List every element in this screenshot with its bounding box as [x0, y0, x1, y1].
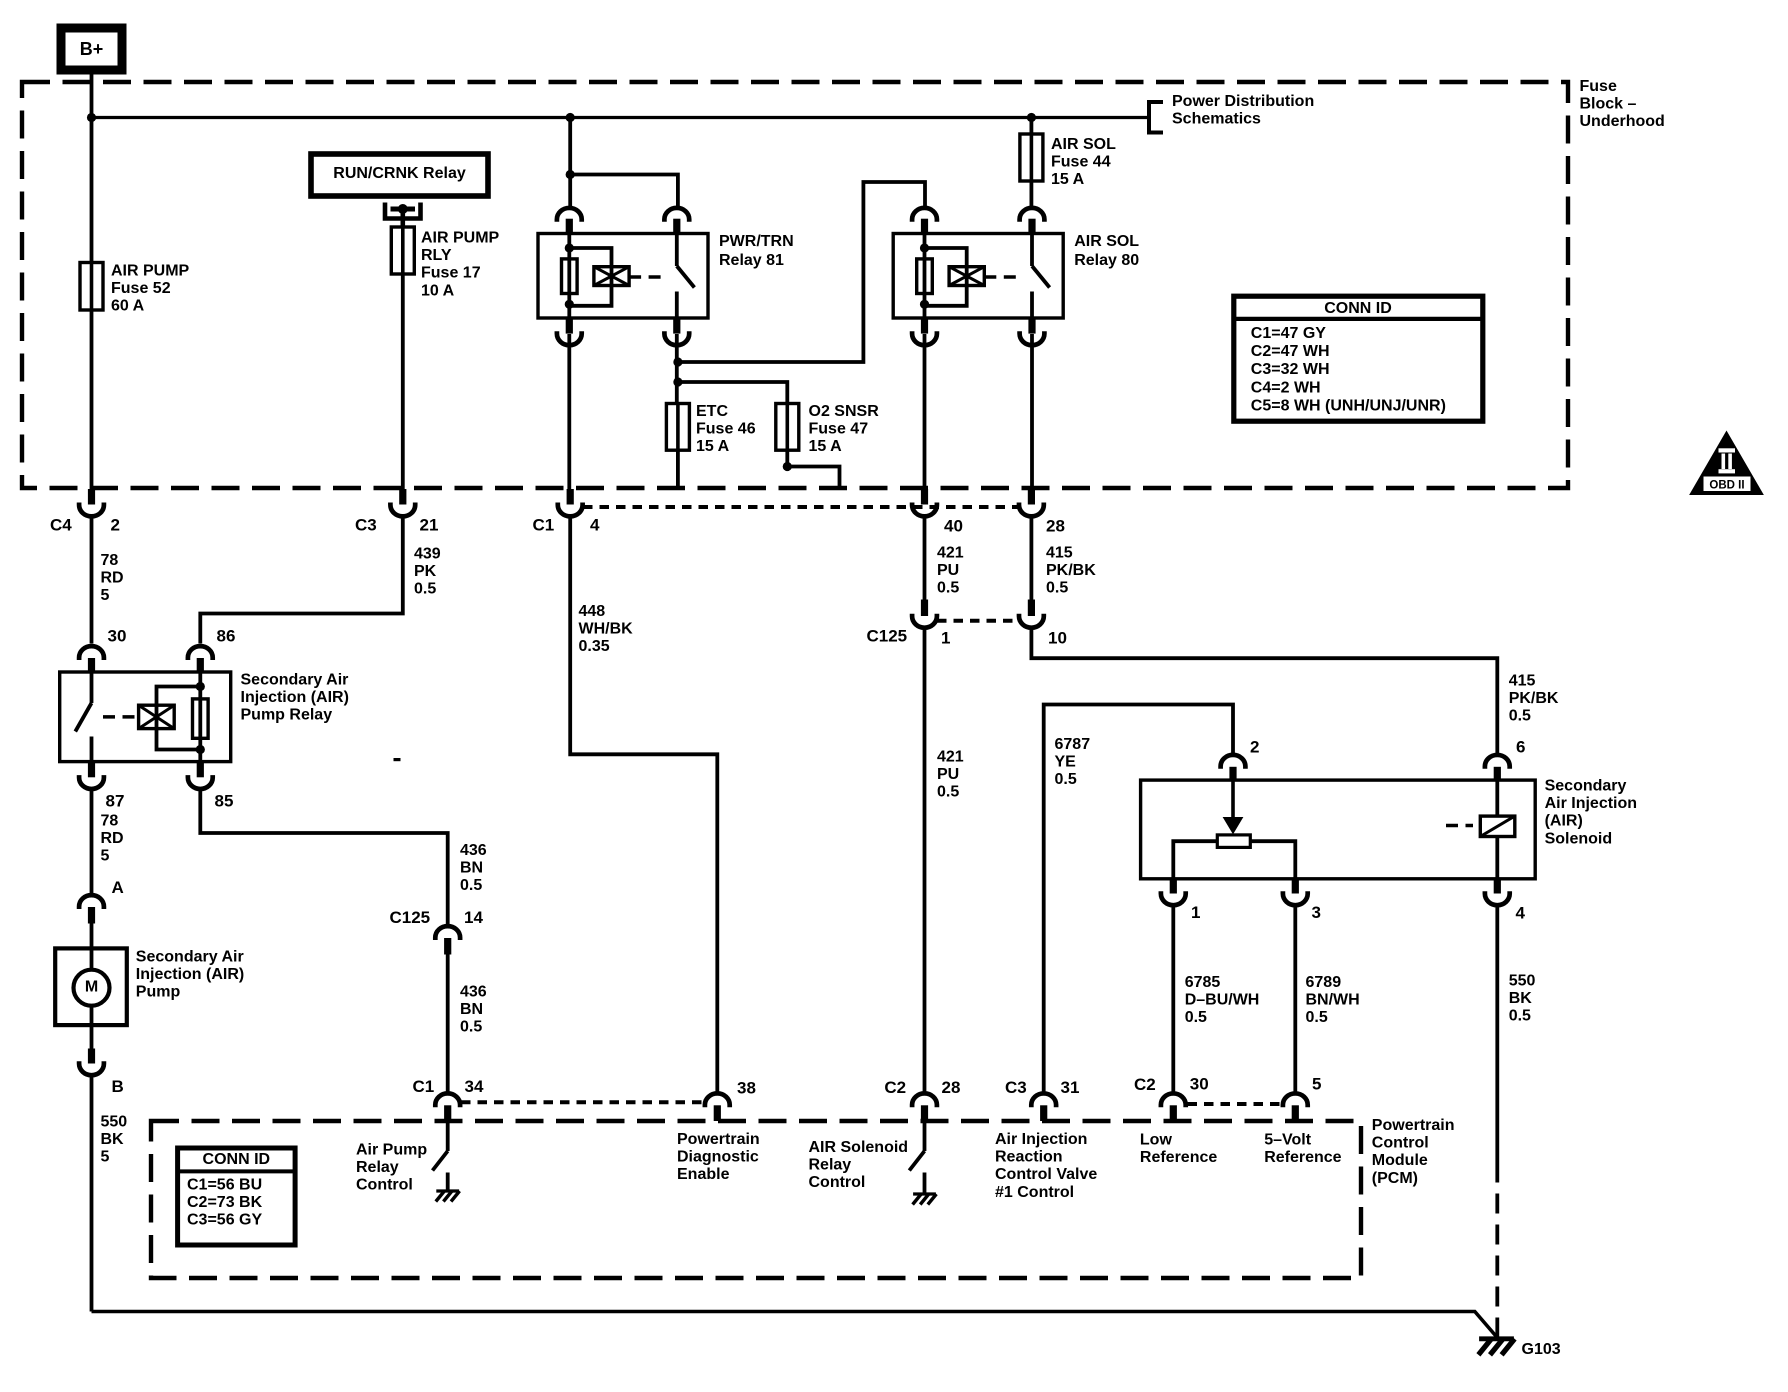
svg-text:40: 40 — [944, 517, 963, 536]
svg-text:PK: PK — [414, 563, 437, 580]
svg-text:6785: 6785 — [1185, 974, 1221, 991]
wire: 78 RD 5 pump relay 87 to pump connector A — [90, 790, 94, 895]
relay 81 PWR/TRN: switch bottom terminal — [673, 318, 680, 334]
relay 81 PWR/TRN: coil wire — [567, 234, 571, 319]
wire: relay 80 coil to pin 40 — [923, 334, 927, 490]
PCM pin C2-30 — [1161, 1093, 1186, 1107]
ground: AIR solenoid relay driver — [913, 1192, 936, 1195]
svg-text:415: 415 — [1046, 545, 1073, 562]
node: relay 81 output to AIR SOL relay coil — [673, 357, 682, 366]
pump relay pin 85 terminal — [197, 762, 204, 778]
svg-text:0.5: 0.5 — [1509, 1008, 1531, 1025]
svg-text:Secondary Air: Secondary Air — [136, 949, 244, 966]
svg-text:550: 550 — [101, 1114, 128, 1131]
svg-text:5: 5 — [101, 1149, 110, 1166]
B+ battery feed symbol — [61, 28, 122, 70]
svg-text:0.5: 0.5 — [1509, 708, 1531, 725]
svg-text:34: 34 — [465, 1077, 484, 1096]
svg-text:Reference: Reference — [1264, 1149, 1341, 1166]
wire: 415 PK/BK 0.5 pin 28 to C125-10 — [1030, 517, 1034, 600]
wire: 415 PK/BK 0.5 C125-10 to solenoid pin 6 — [1031, 629, 1497, 754]
svg-text:C1=56 BU: C1=56 BU — [187, 1177, 262, 1194]
svg-text:(PCM): (PCM) — [1372, 1170, 1418, 1187]
svg-text:2: 2 — [1250, 738, 1259, 757]
RUN/CRNK Relay label box — [311, 154, 488, 196]
wire: 421 PU 0.5 pin 40 to C125-1 — [923, 517, 927, 600]
svg-text:14: 14 — [464, 908, 483, 927]
svg-text:C2: C2 — [1134, 1075, 1156, 1094]
svg-text:Fuse 17: Fuse 17 — [421, 265, 481, 282]
relay 81 PWR/TRN: switch top terminal — [664, 208, 689, 222]
svg-text:O2 SNSR: O2 SNSR — [809, 403, 880, 420]
svg-text:AIR PUMP: AIR PUMP — [421, 230, 500, 247]
relay 81 PWR/TRN: actuation dashes — [629, 275, 668, 279]
connector A at AIR pump — [79, 895, 104, 909]
wire: relay 81 switch output to AIR SOL relay coil pin — [678, 182, 925, 362]
svg-text:Fuse 52: Fuse 52 — [111, 280, 171, 297]
svg-text:Fuse 46: Fuse 46 — [696, 421, 756, 438]
svg-text:BK: BK — [101, 1131, 125, 1148]
svg-text:550: 550 — [1509, 973, 1536, 990]
wire: 448 WH/BK 0.35 from C1-4 to PCM 38 — [570, 517, 717, 1093]
svg-text:0.5: 0.5 — [460, 877, 482, 894]
svg-text:Injection (AIR): Injection (AIR) — [136, 966, 244, 983]
relay 80 AIR SOL: coil resistor — [917, 259, 933, 294]
svg-text:#1 Control: #1 Control — [995, 1184, 1074, 1201]
svg-text:5: 5 — [101, 848, 110, 865]
fuse F44 AIR SOL 15 A — [1020, 134, 1043, 181]
wire: branch to fuse 47 — [678, 382, 787, 404]
CONN ID table (PCM) — [178, 1148, 296, 1245]
svg-text:C5=8 WH (UNH/UNJ/UNR): C5=8 WH (UNH/UNJ/UNR) — [1251, 397, 1446, 414]
svg-text:C3=56 GY: C3=56 GY — [187, 1212, 262, 1229]
svg-text:B: B — [112, 1077, 124, 1096]
svg-text:C4: C4 — [50, 516, 72, 535]
node: bus tap for AIR SOL fuse 44 — [1027, 113, 1036, 122]
svg-text:6789: 6789 — [1306, 974, 1342, 991]
wire: power bus — [92, 116, 1150, 119]
svg-text:OBD II: OBD II — [1709, 480, 1744, 492]
svg-text:M: M — [85, 979, 98, 996]
AIR solenoid: coil dashes — [1446, 824, 1473, 828]
svg-text:Injection (AIR): Injection (AIR) — [241, 689, 349, 706]
svg-text:C1=47 GY: C1=47 GY — [1251, 325, 1326, 342]
svg-text:Module: Module — [1372, 1152, 1428, 1169]
fuse block - underhood boundary (dashed) — [22, 82, 1568, 488]
svg-text:PK/BK: PK/BK — [1509, 690, 1559, 707]
connector pin 40 — [921, 489, 928, 505]
wire: B+ down to fuse 52 — [90, 70, 94, 263]
svg-text:Solenoid: Solenoid — [1545, 830, 1613, 847]
svg-text:0.5: 0.5 — [1306, 1009, 1328, 1026]
wire: 550 BK ground run to G103 — [92, 1312, 1498, 1338]
connector C3 pin 21 — [399, 489, 406, 505]
svg-text:421: 421 — [937, 545, 964, 562]
connector C125 pin 1 — [921, 600, 928, 617]
svg-text:85: 85 — [215, 792, 234, 811]
pump relay: coil wire — [198, 672, 202, 762]
relay 81 PWR/TRN: coil bottom terminal — [566, 318, 573, 334]
svg-text:Fuse 44: Fuse 44 — [1051, 154, 1111, 171]
relay 80 AIR SOL: suppression element — [949, 267, 984, 286]
svg-text:C2=73 BK: C2=73 BK — [187, 1194, 263, 1211]
wire: 6785 D-BU/WH 0.5 pin 1 to PCM C2-30 — [1171, 907, 1175, 1093]
node: bus tap for PWR/TRN relay — [566, 113, 575, 122]
PCM driver switch: air pump relay control — [446, 1121, 450, 1151]
svg-text:0.5: 0.5 — [414, 581, 436, 598]
pump relay pin 87 terminal — [88, 762, 95, 778]
fuse F52 AIR PUMP 60 A — [80, 263, 103, 311]
svg-text:PU: PU — [937, 562, 959, 579]
connector: solenoid pin 1 terminal — [1170, 879, 1177, 894]
wire: fuse 46 output stub — [676, 450, 680, 488]
dotted connector line 34..38 — [461, 1100, 706, 1104]
svg-text:Fuse 47: Fuse 47 — [809, 421, 869, 438]
svg-text:439: 439 — [414, 546, 441, 563]
relay 80 AIR SOL: actuation dashes — [984, 275, 1023, 279]
PCM boundary (dashed) — [151, 1121, 1361, 1278]
svg-text:5: 5 — [1312, 1075, 1321, 1094]
node: branch to O2 SNSR fuse 47 — [673, 377, 682, 386]
svg-text:421: 421 — [937, 749, 964, 766]
relay 80 AIR SOL: switch contact — [1030, 234, 1034, 267]
svg-text:Secondary: Secondary — [1545, 778, 1627, 795]
pump relay: switch contact — [90, 672, 94, 703]
svg-text:436: 436 — [460, 842, 487, 859]
svg-text:Pump Relay: Pump Relay — [241, 707, 333, 724]
ground: air pump relay driver — [436, 1189, 459, 1192]
svg-text:G103: G103 — [1522, 1341, 1561, 1358]
pump relay: suppression loop — [157, 687, 201, 750]
connector C1 pin 4 — [567, 489, 574, 505]
wire: 78 RD 5 to pump relay pin 30 — [90, 517, 94, 644]
AIR solenoid: position sensor arrow — [1231, 780, 1235, 820]
AIR solenoid: coil lead bottom — [1495, 837, 1499, 879]
svg-text:AIR Solenoid: AIR Solenoid — [809, 1139, 909, 1156]
svg-text:BN: BN — [460, 1001, 483, 1018]
connector B at AIR pump — [88, 1049, 95, 1064]
svg-text:(AIR): (AIR) — [1545, 813, 1583, 830]
svg-text:B+: B+ — [80, 39, 104, 59]
relay 81 PWR/TRN: suppression element — [594, 267, 629, 286]
wire: fuse 52 to connector C4 pin 2 — [90, 310, 94, 490]
svg-text:AIR PUMP: AIR PUMP — [111, 263, 190, 280]
svg-text:C1: C1 — [533, 516, 555, 535]
svg-text:Schematics: Schematics — [1172, 111, 1261, 128]
svg-text:415: 415 — [1509, 673, 1536, 690]
wire: 6789 BN/WH 0.5 pin 3 to PCM 5 — [1293, 907, 1297, 1093]
svg-text:PK/BK: PK/BK — [1046, 562, 1096, 579]
OBD II pillar emblem — [1719, 448, 1736, 473]
pump motor: internal lead top — [90, 948, 94, 969]
svg-text:D–BU/WH: D–BU/WH — [1185, 992, 1260, 1009]
wire: 421 PU 0.5 C125-1 to PCM C2-28 — [923, 629, 927, 1093]
svg-text:Control Valve: Control Valve — [995, 1166, 1097, 1183]
svg-text:Relay 80: Relay 80 — [1074, 252, 1139, 269]
wire: relay 81 coil to connector C1 pin 4 — [567, 334, 571, 490]
node: fuse 47 output — [783, 462, 792, 471]
svg-text:RD: RD — [101, 570, 124, 587]
svg-text:10 A: 10 A — [421, 282, 455, 299]
svg-text:CONN ID: CONN ID — [203, 1151, 271, 1168]
bracket: power distribution schematics — [1149, 102, 1163, 133]
svg-text:CONN ID: CONN ID — [1324, 300, 1392, 317]
svg-text:C2=47 WH: C2=47 WH — [1251, 343, 1330, 360]
svg-text:Relay: Relay — [356, 1159, 399, 1176]
PCM pin 5 — [1283, 1093, 1308, 1107]
relay 80 AIR SOL: coil wire — [923, 234, 927, 319]
svg-text:Relay: Relay — [809, 1157, 852, 1174]
svg-text:Air Pump: Air Pump — [356, 1142, 427, 1159]
svg-text:6787: 6787 — [1055, 736, 1091, 753]
svg-text:28: 28 — [1046, 517, 1065, 536]
svg-text:C2: C2 — [884, 1078, 906, 1097]
svg-text:448: 448 — [579, 603, 606, 620]
PCM pin C1-34 — [435, 1093, 460, 1107]
svg-text:Reference: Reference — [1140, 1149, 1217, 1166]
svg-text:6: 6 — [1516, 738, 1525, 757]
wire: 439 PK 0.5 from C3-21 to pump relay 86 — [200, 517, 402, 644]
fuse F17 AIR PUMP RLY 10 A — [391, 227, 414, 274]
svg-text:2: 2 — [111, 516, 120, 535]
svg-text:Air Injection: Air Injection — [1545, 795, 1637, 812]
OBD II marker triangle — [1690, 432, 1763, 495]
svg-text:Low: Low — [1140, 1132, 1173, 1149]
svg-text:Underhood: Underhood — [1580, 113, 1665, 130]
svg-text:28: 28 — [942, 1078, 961, 1097]
svg-text:4: 4 — [590, 516, 600, 535]
relay 80 AIR SOL: suppression loop — [925, 248, 967, 306]
svg-text:0.35: 0.35 — [579, 638, 610, 655]
AIR solenoid: body — [1141, 780, 1536, 879]
wire: 436 BN 0.5 from pin 85 to C125-14 — [200, 790, 447, 926]
svg-text:A: A — [112, 878, 124, 897]
dotted connector line C125 1..10 — [937, 619, 1019, 623]
svg-text:0.5: 0.5 — [1055, 771, 1077, 788]
PCM driver switch: AIR solenoid relay control — [923, 1121, 927, 1151]
pump relay: coil resistor — [193, 699, 209, 738]
wire: bus to PWR/TRN relay coil pin — [568, 118, 572, 208]
svg-text:RLY: RLY — [421, 247, 452, 264]
svg-text:Enable: Enable — [677, 1166, 730, 1183]
svg-text:436: 436 — [460, 984, 487, 1001]
PCM pin 38 — [705, 1093, 730, 1107]
svg-text:Powertrain: Powertrain — [1372, 1117, 1455, 1134]
wire: 550 BK 0.5 solenoid pin 4 (solid part) — [1495, 907, 1499, 1169]
svg-text:78: 78 — [101, 552, 119, 569]
AIR solenoid: coil lead top — [1495, 780, 1499, 816]
svg-text:15 A: 15 A — [696, 438, 730, 455]
wire: fuse 47 output stub — [787, 450, 839, 488]
wire: 436 BN 0.5 from C125-14 to PCM 34 — [446, 955, 450, 1093]
ground G103 — [1479, 1336, 1514, 1341]
relay 80 AIR SOL: coil bottom terminal — [921, 318, 928, 334]
svg-text:C3: C3 — [1005, 1078, 1027, 1097]
wire: pump motor to connector B — [90, 1025, 94, 1048]
svg-text:BK: BK — [1509, 990, 1533, 1007]
wire: connector A to pump motor — [90, 924, 94, 949]
svg-text:87: 87 — [106, 792, 125, 811]
pump motor: internal lead bottom — [90, 1006, 94, 1025]
svg-text:ETC: ETC — [696, 403, 728, 420]
svg-text:86: 86 — [217, 627, 236, 646]
svg-text:WH/BK: WH/BK — [579, 621, 634, 638]
wire: 6787 YE 0.5 PCM C3-31 to solenoid pin 2 — [1044, 705, 1233, 1093]
svg-text:BN: BN — [460, 860, 483, 877]
PCM pin C2-28 — [912, 1093, 937, 1107]
svg-text:5–Volt: 5–Volt — [1264, 1132, 1312, 1149]
svg-text:C125: C125 — [390, 908, 431, 927]
svg-text:Relay 81: Relay 81 — [719, 252, 784, 269]
dotted connector line 30..5 — [1188, 1102, 1283, 1106]
svg-text:60 A: 60 A — [111, 298, 145, 315]
connector: solenoid pin 2 terminal — [1221, 755, 1246, 769]
relay 81 PWR/TRN: switch contact — [675, 234, 679, 267]
wire: 550 BK 5 pump to ground — [90, 1076, 94, 1311]
fuse F46 ETC 15 A — [666, 404, 689, 451]
pump relay: suppression element — [139, 705, 175, 728]
wire: bus to fuse 44 — [1030, 118, 1034, 135]
svg-text:21: 21 — [420, 516, 439, 535]
connector C125 pin 10 — [1028, 600, 1035, 617]
svg-text:30: 30 — [108, 627, 127, 646]
relay 80 AIR SOL: switch top terminal — [1020, 208, 1045, 222]
svg-text:0.5: 0.5 — [460, 1019, 482, 1036]
svg-text:Powertrain: Powertrain — [677, 1131, 760, 1148]
wire: 550 BK 0.5 dashed run to G103 — [1495, 1168, 1499, 1338]
svg-text:Control: Control — [1372, 1135, 1429, 1152]
svg-text:31: 31 — [1061, 1078, 1080, 1097]
svg-text:PWR/TRN: PWR/TRN — [719, 233, 794, 250]
svg-text:C3: C3 — [355, 516, 377, 535]
svg-text:15 A: 15 A — [809, 438, 843, 455]
connector: pump relay pin 30 terminal — [79, 646, 104, 660]
AIR solenoid: wire resistor to pin 3 — [1250, 841, 1295, 879]
connector: solenoid pin 3 terminal — [1292, 879, 1299, 894]
relay 81 PWR/TRN: coil resistor — [562, 259, 578, 294]
CONN ID table (fuse block) — [1234, 296, 1483, 421]
stray mark — [394, 758, 401, 761]
pump relay: body — [60, 672, 231, 762]
connector: pump relay pin 86 terminal — [188, 646, 213, 660]
svg-text:Block –: Block – — [1580, 96, 1637, 113]
dotted connector line C1..28 — [583, 505, 1018, 509]
node: branch to PWR/TRN switch pin — [566, 170, 575, 179]
pump relay: actuation dashes — [103, 715, 139, 719]
wire: fuse 17 to connector C3 pin 21 — [401, 274, 405, 490]
svg-text:0.5: 0.5 — [937, 580, 959, 597]
svg-text:4: 4 — [1516, 904, 1526, 923]
svg-text:5: 5 — [101, 587, 110, 604]
AIR solenoid: wire resistor to pin 1 — [1173, 841, 1217, 879]
relay 80 AIR SOL: body — [893, 234, 1063, 319]
svg-text:0.5: 0.5 — [937, 784, 959, 801]
svg-text:Fuse: Fuse — [1580, 78, 1617, 95]
connector: solenoid pin 6 terminal — [1485, 755, 1510, 769]
svg-text:Diagnostic: Diagnostic — [677, 1149, 759, 1166]
symbol: relay socket terminal under RUN/CRNK relay — [385, 203, 421, 219]
svg-text:Control: Control — [356, 1177, 413, 1194]
wire: fuse 44 to relay 80 switch pin — [1030, 181, 1034, 208]
wire: relay 80 switch to pin 28 — [1030, 334, 1034, 490]
svg-text:C3=32 WH: C3=32 WH — [1251, 361, 1330, 378]
svg-text:10: 10 — [1048, 629, 1067, 648]
svg-text:Pump: Pump — [136, 984, 181, 1001]
svg-text:C1: C1 — [413, 1077, 435, 1096]
node: bus tap at B+ feed — [87, 113, 96, 122]
svg-text:78: 78 — [101, 813, 119, 830]
relay 80 AIR SOL: coil top terminal — [912, 208, 937, 222]
connector pin 28 — [1028, 489, 1035, 505]
AIR solenoid: sensor resistor — [1217, 835, 1250, 848]
svg-text:PU: PU — [937, 766, 959, 783]
svg-text:RD: RD — [101, 830, 124, 847]
relay 81 PWR/TRN: suppression loop — [569, 248, 611, 306]
wire: relay 81 switch to ETC fuse 46 — [675, 334, 679, 404]
svg-text:RUN/CRNK Relay: RUN/CRNK Relay — [333, 165, 466, 182]
svg-text:15 A: 15 A — [1051, 171, 1085, 188]
svg-text:YE: YE — [1055, 754, 1077, 771]
svg-text:C4=2 WH: C4=2 WH — [1251, 379, 1321, 396]
svg-text:0.5: 0.5 — [1185, 1009, 1207, 1026]
svg-text:AIR SOL: AIR SOL — [1074, 233, 1139, 250]
svg-text:Power Distribution: Power Distribution — [1172, 93, 1314, 110]
svg-text:Secondary Air: Secondary Air — [241, 672, 349, 689]
svg-text:Reaction: Reaction — [995, 1149, 1063, 1166]
fuse F47 O2 SNSR 15 A — [776, 404, 799, 451]
svg-text:Air Injection: Air Injection — [995, 1131, 1087, 1148]
svg-text:38: 38 — [737, 1079, 756, 1098]
pump motor: body — [55, 948, 127, 1025]
svg-text:1: 1 — [1191, 903, 1200, 922]
connector C4 pin 2 — [88, 489, 95, 505]
svg-text:3: 3 — [1312, 903, 1321, 922]
svg-text:0.5: 0.5 — [1046, 580, 1068, 597]
connector: solenoid pin 4 terminal — [1494, 879, 1501, 894]
svg-text:AIR SOL: AIR SOL — [1051, 136, 1116, 153]
wire: branch to PWR/TRN relay switch pin — [570, 175, 678, 208]
relay 81 PWR/TRN: coil top terminal — [557, 208, 582, 222]
PCM pin C3-31 — [1031, 1093, 1056, 1107]
connector C125 pin 14 — [435, 926, 460, 940]
svg-text:C125: C125 — [867, 627, 908, 646]
svg-text:1: 1 — [941, 629, 950, 648]
relay 80 AIR SOL: switch bottom terminal — [1028, 318, 1035, 334]
svg-text:BN/WH: BN/WH — [1306, 992, 1360, 1009]
svg-text:30: 30 — [1190, 1075, 1209, 1094]
svg-text:Control: Control — [809, 1174, 866, 1191]
relay 81 PWR/TRN: body — [538, 234, 708, 319]
